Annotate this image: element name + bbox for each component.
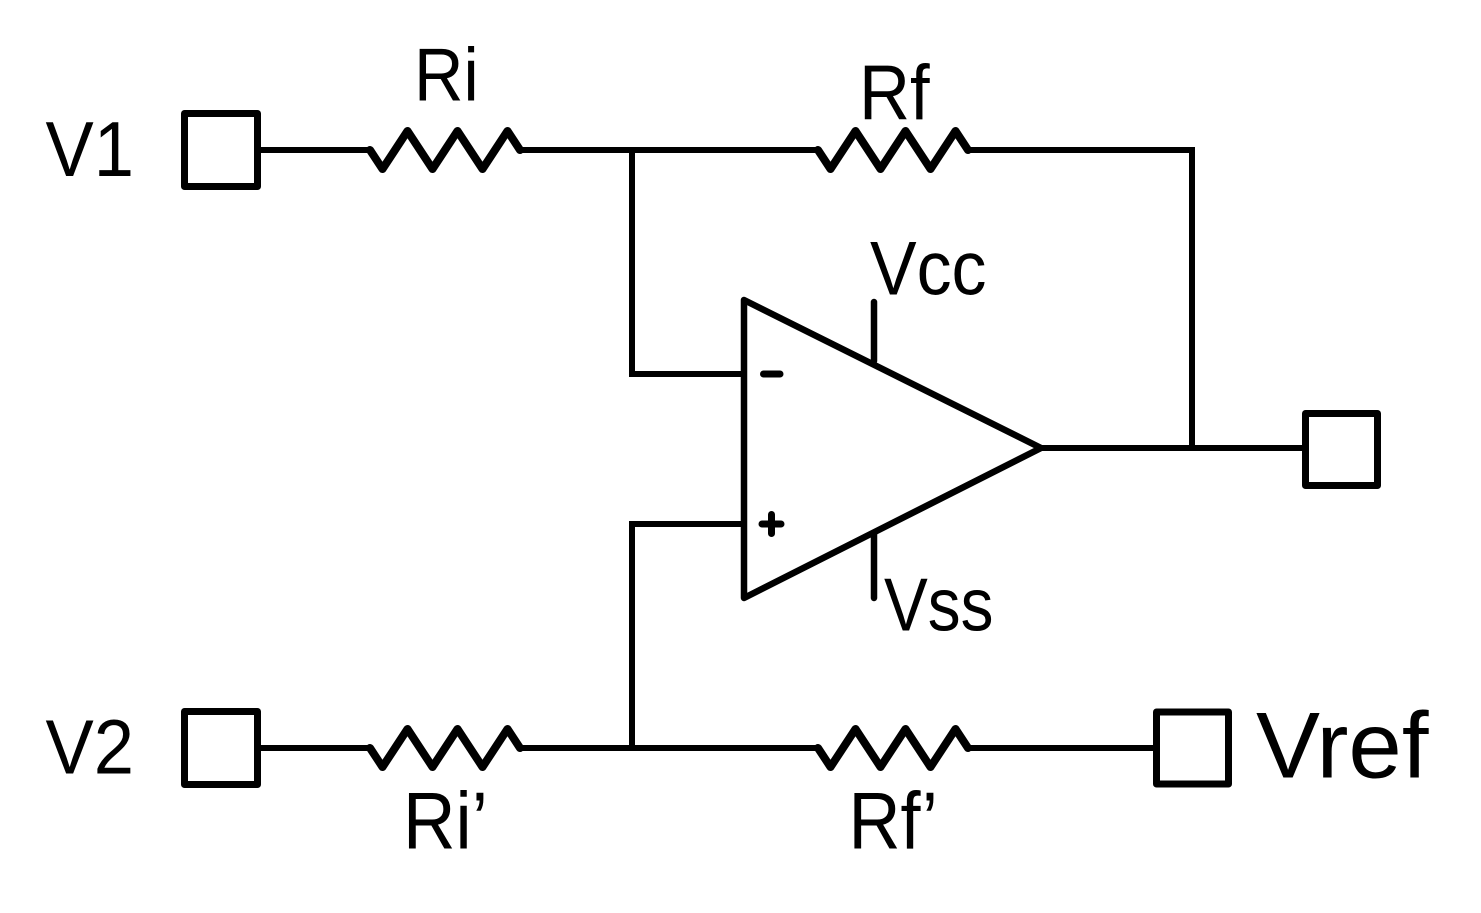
svg-text:Vref: Vref [1256, 693, 1430, 798]
svg-text:Vcc: Vcc [870, 227, 987, 312]
svg-text:Ri’: Ri’ [403, 777, 488, 867]
svg-text:V2: V2 [46, 705, 135, 791]
svg-text:Vss: Vss [884, 563, 994, 647]
svg-text:Ri: Ri [414, 33, 479, 117]
svg-text:Rf: Rf [859, 51, 930, 137]
svg-text:V1: V1 [46, 107, 135, 193]
svg-text:Rf’: Rf’ [849, 777, 938, 867]
